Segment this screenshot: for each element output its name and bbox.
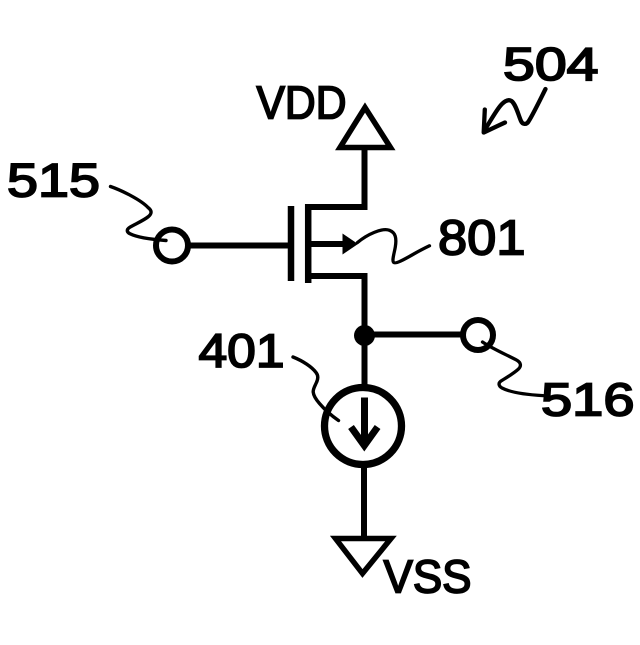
svg-text:515: 515 — [7, 155, 100, 208]
svg-text:VSS: VSS — [384, 551, 472, 603]
wire: node A to output terminal 516 — [365, 332, 462, 338]
terminal circle 515 (gate input) — [156, 230, 188, 262]
leader squiggle for 516 — [483, 342, 544, 396]
node A (junction dot) — [354, 325, 375, 346]
VSS power symbol (down triangle) — [336, 539, 392, 574]
wire: source of Q801 down to node A — [305, 276, 365, 337]
transistor Q801 gate bar — [288, 206, 295, 281]
wire: VDD to drain of Q801 — [305, 150, 365, 207]
svg-text:516: 516 — [541, 374, 635, 426]
svg-text:VDD: VDD — [257, 77, 347, 129]
svg-text:504: 504 — [503, 38, 599, 90]
VDD power symbol (triangle) — [340, 108, 391, 148]
current source I401 (circle) — [325, 388, 402, 465]
leader squiggle for 801 — [358, 230, 430, 263]
wire: node A to current source I401 — [362, 335, 368, 388]
terminal circle 516 (output) — [463, 320, 493, 350]
transistor Q801 channel bar — [305, 204, 312, 283]
svg-text:801: 801 — [438, 211, 526, 266]
wire: terminal 515 to gate — [189, 243, 288, 249]
current source I401 arrow (downward) — [361, 398, 368, 442]
leader arrow for 504 — [484, 89, 546, 133]
svg-text:401: 401 — [199, 325, 285, 378]
wire: current source to VSS — [361, 462, 367, 537]
transistor Q801 bulk stub with arrow — [308, 241, 345, 247]
leader squiggle for 515 — [111, 187, 167, 241]
leader squiggle for 401 — [293, 357, 339, 421]
